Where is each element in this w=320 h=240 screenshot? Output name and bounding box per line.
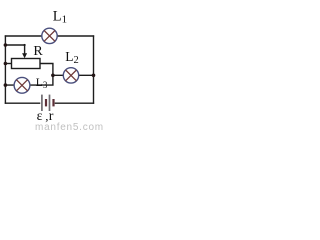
wire left to resistor: [5, 63, 12, 65]
lamp L3 cross: [16, 80, 27, 91]
junction node C (resistor/L2/L3): [51, 74, 55, 78]
lamp L2 circle: [63, 68, 78, 83]
battery long plate 2: [49, 95, 51, 111]
svg-text:L2: L2: [65, 49, 79, 66]
junction node E (L3 left): [4, 83, 8, 87]
junction node D (L2 right): [92, 74, 96, 78]
wiper arrowhead: [22, 53, 27, 58]
wire L3 branch: [5, 75, 53, 85]
svg-text:manfen5.com: manfen5.com: [35, 122, 104, 130]
lamp L1 cross: [44, 31, 55, 42]
wire top side: [5, 35, 94, 37]
battery long plate 1: [41, 95, 43, 111]
lamp L1 circle: [42, 28, 57, 43]
junction node B (resistor left): [4, 62, 8, 66]
lamp L2 cross: [66, 70, 77, 81]
wire right side: [93, 35, 95, 104]
wire resistor to node C: [40, 64, 53, 76]
wire bottom left (to battery): [5, 102, 41, 104]
wire left side: [4, 35, 6, 104]
wire bottom right (from battery): [55, 102, 94, 104]
wire rheostat wiper branch: [5, 45, 24, 54]
battery short plate 1: [45, 99, 47, 106]
svg-text:L1: L1: [53, 8, 67, 25]
wire L2 branch: [53, 74, 94, 76]
wiper corner dot: [24, 44, 26, 46]
lamp L3 circle: [14, 77, 30, 93]
resistor R box: [12, 59, 41, 69]
svg-text:R: R: [33, 44, 43, 59]
svg-text:L3: L3: [36, 77, 48, 90]
junction node A (wiper tap): [4, 43, 8, 47]
battery short plate 2: [52, 99, 54, 106]
